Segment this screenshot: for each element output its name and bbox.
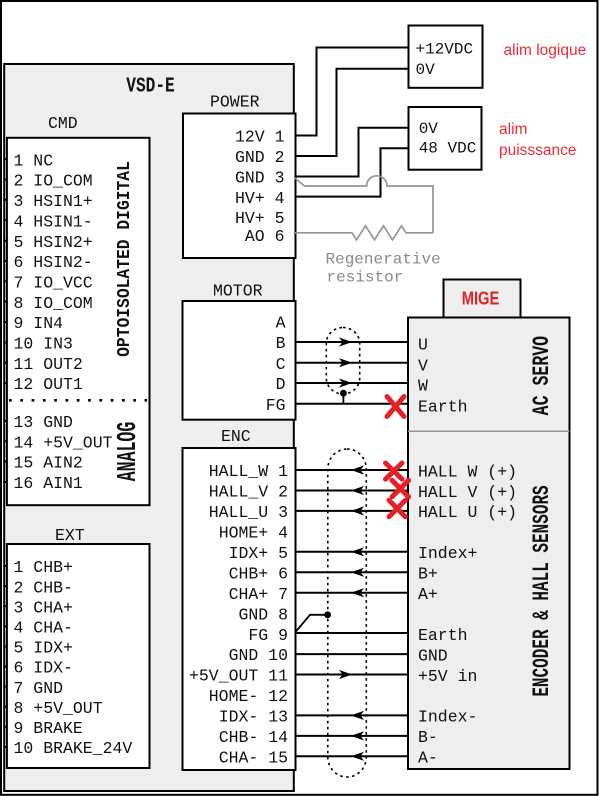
svg-text:8 +5V_OUT: 8 +5V_OUT: [14, 699, 103, 718]
svg-text:HALL U (+): HALL U (+): [418, 503, 517, 522]
svg-text:ENCODER & HALL SENSORS: ENCODER & HALL SENSORS: [528, 485, 555, 696]
logic power supply box: [409, 26, 483, 88]
earth wire FG to motor Earth: [295, 403, 408, 405]
svg-text:7 IO_VCC: 7 IO_VCC: [14, 274, 93, 293]
MOTOR connector box: [183, 301, 296, 420]
svg-text:A-: A-: [418, 749, 438, 768]
CMD digital/analog dotted separator: [9, 399, 147, 402]
svg-text:GND 8: GND 8: [238, 605, 288, 624]
svg-text:MOTOR: MOTOR: [213, 282, 263, 301]
encoder wire HALL_V: [295, 490, 408, 492]
svg-text:6 IDX-: 6 IDX-: [14, 659, 73, 678]
encoder wire CHA-: [295, 755, 408, 757]
svg-text:puisssance: puisssance: [499, 142, 577, 159]
OPTOISOLATED DIGITAL section label: [114, 161, 135, 357]
EXT pin 1 stub: [3, 565, 7, 567]
svg-text:resistor: resistor: [327, 269, 404, 287]
encoder wire IDX-: [295, 714, 408, 716]
ENC connector box: [183, 448, 296, 770]
CMD pin 10 stub: [3, 341, 7, 343]
encoder wire GND: [295, 653, 408, 655]
encoder wire FG-Earth: [295, 632, 408, 634]
CMD pin 4 stub: [3, 219, 7, 221]
svg-text:Earth: Earth: [418, 398, 468, 417]
svg-text:EXT: EXT: [55, 526, 85, 545]
wire 12V pin1 to +12VDC: [295, 48, 409, 136]
arrow on wire HALL_W: [351, 465, 364, 474]
svg-text:13 GND: 13 GND: [14, 413, 74, 432]
arrow on wire CHB-: [351, 731, 364, 740]
svg-text:B-: B-: [418, 728, 438, 747]
ENCODER &amp; HALL SENSORS section label: [528, 485, 555, 696]
48V power supply box: [409, 107, 482, 170]
motor cable shield (dashed): [326, 328, 359, 395]
arrow on wire HALL_V: [351, 486, 364, 495]
svg-text:0V: 0V: [416, 61, 436, 79]
svg-text:A: A: [276, 314, 286, 333]
arrow on wire B-U: [339, 337, 352, 346]
svg-text:GND 2: GND 2: [235, 148, 285, 167]
arrow on wire C-V: [339, 358, 352, 367]
svg-text:5 HSIN2+: 5 HSIN2+: [14, 233, 93, 252]
svg-text:GND: GND: [418, 646, 448, 665]
svg-text:HALL_V 2: HALL_V 2: [209, 483, 288, 502]
ANALOG section label: [112, 422, 143, 482]
svg-text:11 OUT2: 11 OUT2: [14, 355, 83, 374]
svg-text:GND 3: GND 3: [235, 169, 285, 188]
divider between AC SERVO and sensor sections: [408, 430, 570, 432]
EXT pin 3 stub: [3, 605, 7, 607]
encoder wire +5V: [295, 674, 408, 676]
svg-text:6 HSIN2-: 6 HSIN2-: [14, 253, 93, 272]
motor phase wire D-W: [295, 382, 408, 384]
svg-text:2 IO_COM: 2 IO_COM: [14, 172, 93, 191]
svg-text:3 CHA+: 3 CHA+: [14, 598, 73, 617]
arrow on wire CHA+: [351, 588, 364, 597]
VSD-E title: [126, 73, 174, 98]
svg-text:16 AIN1: 16 AIN1: [14, 474, 83, 493]
svg-text:1 CHB+: 1 CHB+: [14, 558, 73, 577]
svg-text:alim: alim: [499, 121, 527, 138]
svg-text:POWER: POWER: [210, 93, 260, 112]
svg-text:C: C: [276, 355, 286, 374]
svg-text:HOME+ 4: HOME+ 4: [219, 524, 288, 543]
svg-text:MIGE: MIGE: [462, 288, 500, 309]
CMD pin 8 stub: [3, 301, 7, 303]
motor phase wire C-V: [295, 362, 408, 364]
svg-text:ENC: ENC: [221, 427, 251, 446]
svg-text:VSD-E: VSD-E: [126, 73, 174, 98]
svg-text:AC SERVO: AC SERVO: [530, 336, 556, 415]
svg-text:CHB- 14: CHB- 14: [219, 728, 288, 747]
CMD pin 7 stub: [3, 280, 7, 282]
svg-text:CHB+ 6: CHB+ 6: [229, 565, 288, 584]
resistor R-regen zigzag and wire to AO pin6: [295, 226, 433, 240]
svg-text:B: B: [276, 334, 286, 353]
svg-text:+5V in: +5V in: [418, 667, 477, 686]
svg-text:Index-: Index-: [418, 708, 477, 727]
encoder wire CHB+: [295, 571, 408, 573]
encoder wire CHA+: [295, 592, 408, 594]
EXT pin 10 stub: [3, 746, 7, 748]
POWER connector box: [183, 114, 296, 259]
svg-text:4 HSIN1-: 4 HSIN1-: [14, 212, 93, 231]
svg-text:D: D: [276, 375, 286, 394]
EXT pin 6 stub: [3, 666, 7, 668]
svg-text:OPTOISOLATED DIGITAL: OPTOISOLATED DIGITAL: [114, 161, 135, 357]
svg-text:9 BRAKE: 9 BRAKE: [14, 719, 83, 738]
svg-text:HOME- 12: HOME- 12: [209, 687, 288, 706]
svg-text:A+: A+: [418, 585, 438, 604]
svg-text:IDX+ 5: IDX+ 5: [229, 544, 288, 563]
red X on HALL wire 1: [386, 463, 403, 479]
EXT connector box: [7, 544, 150, 768]
svg-text:Regenerative: Regenerative: [326, 251, 441, 269]
svg-text:5 IDX+: 5 IDX+: [14, 639, 73, 658]
red X on HALL wire 2: [392, 480, 409, 497]
svg-text:12V 1: 12V 1: [235, 128, 285, 147]
svg-text:CHA- 15: CHA- 15: [219, 749, 288, 768]
arrow on wire IDX+: [351, 547, 364, 556]
svg-text:ANALOG: ANALOG: [112, 422, 143, 482]
svg-text:48 VDC: 48 VDC: [419, 140, 477, 158]
arrow on wire CHB+: [351, 568, 364, 577]
CMD pin 9 stub: [3, 321, 7, 323]
encoder shield junction dot: [324, 611, 331, 618]
svg-text:alim logique: alim logique: [504, 42, 587, 59]
svg-text:7 GND: 7 GND: [14, 679, 64, 698]
svg-text:HALL W (+): HALL W (+): [418, 462, 517, 481]
CMD pin 16 stub: [3, 481, 7, 483]
EXT pin 4 stub: [3, 625, 7, 627]
svg-text:HV+ 5: HV+ 5: [235, 209, 285, 228]
svg-text:4 CHA-: 4 CHA-: [14, 619, 73, 638]
wire GND pin3 to 0V 48V-supply: [295, 128, 409, 177]
svg-text:IDX- 13: IDX- 13: [219, 708, 288, 727]
svg-text:10 IN3: 10 IN3: [14, 335, 73, 354]
MIGE motor nameplate box: [444, 280, 521, 318]
EXT pin 9 stub: [3, 726, 7, 728]
svg-text:3 HSIN1+: 3 HSIN1+: [14, 192, 93, 211]
wire HV+ pin4 to 48 VDC: [295, 148, 409, 196]
encoder wire CHB-: [295, 735, 408, 737]
svg-text:Index+: Index+: [418, 544, 477, 563]
red X on motor earth wire: [387, 397, 404, 417]
encoder shield link to FG wire: [296, 615, 328, 632]
svg-text:HALL V (+): HALL V (+): [418, 483, 517, 502]
AC SERVO section label: [530, 336, 556, 415]
arrow on wire +5V: [339, 670, 352, 679]
svg-text:9 IN4: 9 IN4: [14, 314, 64, 333]
red X on HALL wire 3: [389, 500, 405, 517]
motor phase wire B-U: [295, 341, 408, 343]
encoder wire HALL_W: [295, 469, 408, 471]
svg-text:B+: B+: [418, 565, 438, 584]
svg-text:Earth: Earth: [418, 626, 468, 645]
svg-text:1 NC: 1 NC: [14, 151, 54, 170]
svg-text:HALL_U 3: HALL_U 3: [209, 503, 288, 522]
CMD pin 6 stub: [3, 260, 7, 262]
regen wire from GND pin3 with hop over HV+ wire: [295, 176, 433, 233]
svg-text:W: W: [418, 377, 428, 396]
CMD pin 11 stub: [3, 362, 7, 364]
CMD pin 12 stub: [3, 382, 7, 384]
svg-text:AO 6: AO 6: [245, 227, 285, 246]
motor shield stub to earth wire: [342, 393, 344, 404]
svg-text:10 BRAKE_24V: 10 BRAKE_24V: [14, 739, 133, 758]
EXT pin 2 stub: [3, 585, 7, 587]
svg-text:+5V_OUT 11: +5V_OUT 11: [189, 667, 288, 686]
svg-text:V: V: [418, 356, 428, 375]
MIGE label: [462, 288, 500, 309]
CMD pin 3 stub: [3, 199, 7, 201]
svg-text:0V: 0V: [419, 120, 439, 138]
svg-text:15 AIN2: 15 AIN2: [14, 454, 83, 473]
svg-text:GND 10: GND 10: [229, 646, 288, 665]
CMD pin 2 stub: [3, 179, 7, 181]
encoder cable shield (dashed): [328, 449, 367, 777]
wire GND pin2 to 0V logic: [295, 69, 409, 156]
arrow on wire IDX-: [351, 711, 364, 720]
arrow on wire CHA-: [351, 752, 364, 761]
CMD pin 14 stub: [3, 440, 7, 442]
CMD pin 15 stub: [3, 461, 7, 463]
svg-text:HV+ 4: HV+ 4: [235, 189, 285, 208]
svg-text:HALL_W 1: HALL_W 1: [209, 462, 288, 481]
encoder wire HALL_U: [295, 510, 408, 512]
motor body box: [408, 318, 570, 770]
motor shield junction dot: [340, 390, 347, 397]
VSD-E drive enclosure: [4, 64, 294, 791]
svg-text:CHA+ 7: CHA+ 7: [229, 585, 288, 604]
svg-text:FG: FG: [266, 396, 286, 415]
svg-text:U: U: [418, 336, 428, 355]
svg-text:8 IO_COM: 8 IO_COM: [14, 294, 93, 313]
svg-text:+12VDC: +12VDC: [416, 41, 474, 59]
svg-text:12 OUT1: 12 OUT1: [14, 375, 83, 394]
EXT pin 7 stub: [3, 686, 7, 688]
EXT pin 5 stub: [3, 645, 7, 647]
svg-text:2 CHB-: 2 CHB-: [14, 578, 73, 597]
CMD pin 13 stub: [3, 420, 7, 422]
svg-text:14 +5V_OUT: 14 +5V_OUT: [14, 433, 113, 452]
svg-text:CMD: CMD: [48, 114, 78, 133]
svg-text:FG 9: FG 9: [248, 626, 288, 645]
CMD connector box: [7, 138, 150, 505]
CMD pin 5 stub: [3, 240, 7, 242]
arrow on wire HALL_U: [351, 506, 364, 515]
CMD pin 1 stub: [3, 158, 7, 160]
EXT pin 8 stub: [3, 706, 7, 708]
arrow on wire D-W: [339, 378, 352, 387]
encoder wire IDX+: [295, 551, 408, 553]
